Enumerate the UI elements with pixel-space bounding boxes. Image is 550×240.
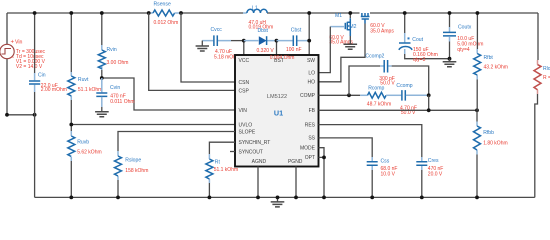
wire LO gate drive [319,27,331,73]
svg-text:Cin: Cin [38,73,46,79]
svg-text:Rvin: Rvin [107,47,117,53]
svg-text:U1: U1 [274,109,283,118]
svg-text:0.012 Ohm: 0.012 Ohm [154,20,179,26]
ground main [271,196,285,207]
voltage source Vin [0,13,46,115]
svg-text:−: − [11,55,15,61]
resistor Ruvt [68,72,103,100]
resistor Rvin [98,45,128,70]
wire Rvin column [100,11,104,78]
wire SYNCOUT stub [230,151,235,153]
svg-text:Cbst: Cbst [291,27,302,33]
transistor M2 low-side [329,11,356,45]
wire FB net [319,95,479,112]
svg-text:AGND: AGND [252,159,267,165]
svg-text:HO: HO [308,80,316,86]
svg-text:Rload: Rload [543,66,550,72]
node BST [275,39,279,55]
capacitor Coutx [443,11,483,61]
svg-text:Rcomp: Rcomp [368,86,384,92]
capacitor Ccomp [396,83,430,116]
svg-text:+: + [11,40,15,46]
ground under Cvin [95,107,109,117]
svg-text:V2 = 14.0 V: V2 = 14.0 V [16,64,43,70]
svg-text:SS: SS [308,136,315,142]
capacitor Ccomp2 [349,54,429,96]
svg-text:CSN: CSN [239,80,250,86]
svg-text:5.62 kOhm: 5.62 kOhm [77,149,101,155]
svg-text:51.1 kOhm: 51.1 kOhm [78,87,102,93]
wire HO gate drive [319,24,366,82]
resistor Rslope [115,151,149,199]
svg-text:COMP: COMP [300,93,316,99]
svg-text:100 nF: 100 nF [286,47,302,53]
svg-text:158 kOhm: 158 kOhm [125,168,148,174]
svg-text:Rfbt: Rfbt [484,55,494,61]
capacitor Cres [416,157,443,199]
resistor Rsense [147,1,183,25]
svg-text:Coutx: Coutx [458,24,472,30]
svg-text:0.011 Ohm: 0.011 Ohm [110,99,134,105]
svg-text:R = 2.9: R = 2.9 [543,75,550,81]
wire SLOPE to Rslope [118,132,235,152]
resistor Rfbt [474,11,508,110]
svg-text:3.00 Ohm: 3.00 Ohm [107,60,129,66]
wire MODE/OPT to ground [319,148,326,200]
svg-text:SYNCOUT: SYNCOUT [239,149,263,155]
resistor Rfbb [474,110,508,199]
svg-text:Rfbb: Rfbb [483,130,494,136]
svg-text:Rslope: Rslope [125,158,141,164]
wire CSN sense [181,13,235,82]
svg-text:CSP: CSP [239,88,250,94]
svg-text:Ccomp2: Ccomp2 [365,54,384,60]
capacitor Css [367,157,398,199]
svg-text:LO: LO [308,70,315,76]
wire PGND [294,167,298,200]
value label Cbst ESR [270,55,295,61]
wire top rail [7,12,538,14]
resistor Rload [534,13,550,197]
svg-text:Rsense: Rsense [154,1,171,7]
svg-text:Dbst: Dbst [258,28,269,34]
wire RES to Cres [319,125,422,157]
wire input column [33,11,37,197]
ground under M2 [344,36,358,49]
svg-text:SW: SW [307,58,315,64]
wire UVLO divider column [69,11,73,199]
capacitor Cout polarized [399,11,450,63]
svg-text:Cvcc: Cvcc [211,27,223,33]
svg-text:FB: FB [309,108,316,114]
svg-text:Ruvb: Ruvb [77,139,89,145]
wire bottom ground rail [35,196,535,198]
svg-text:35.0 Amps: 35.0 Amps [370,28,394,34]
svg-text:UVLO: UVLO [239,122,253,128]
svg-text:M1: M1 [335,13,342,19]
svg-text:VCC: VCC [239,58,250,64]
svg-text:0.320 V: 0.320 V [257,48,275,54]
svg-text:M2: M2 [349,24,356,30]
capacitor Cbst [277,27,310,53]
svg-text:Cout: Cout [412,37,423,43]
node UVLO junction [69,123,235,127]
resistor Ruvb [68,131,102,161]
capacitor Cvin [96,78,134,107]
svg-text:Ruvt: Ruvt [78,77,89,83]
inductor L1 [243,5,273,30]
ground at Cvcc [196,41,209,51]
svg-text:qty=3: qty=3 [413,57,426,63]
svg-text:51.1 kOhm: 51.1 kOhm [214,167,238,173]
svg-text:LM5122: LM5122 [267,94,287,100]
svg-text:VIN: VIN [239,108,248,114]
wire AGND [256,167,260,200]
svg-text:L1: L1 [252,5,258,11]
svg-text:OPT: OPT [305,155,315,161]
svg-text:SYNCHIN_RT: SYNCHIN_RT [239,140,271,146]
svg-text:qty=4: qty=4 [457,47,470,53]
svg-text:PGND: PGND [288,159,303,165]
svg-text:Css: Css [381,159,390,165]
transistor M1 high-side [361,13,395,34]
wire CSP sense [149,13,235,90]
svg-text:RES: RES [305,122,316,128]
svg-text:50.0 V: 50.0 V [401,110,416,116]
diode Dbst [244,28,277,54]
node COMP [319,93,361,97]
svg-text:Cres: Cres [428,158,439,164]
svg-text:1.80 kOhm: 1.80 kOhm [483,140,507,146]
resistor Rcomp [360,86,401,108]
svg-text:Rt: Rt [215,160,221,166]
wire Vin negative return [5,113,36,117]
resistor Rt [206,154,238,199]
ground at output caps [443,59,457,67]
svg-text:Vin: Vin [15,40,23,46]
node SW [307,11,311,55]
wire SS to Css [319,138,373,157]
svg-text:10.0 V: 10.0 V [381,172,396,178]
svg-text:43.2 kOhm: 43.2 kOhm [484,65,508,71]
svg-text:Cvin: Cvin [110,85,120,91]
node Rvin/Cvin/VIN junction [100,76,235,110]
capacitor Cin [29,73,67,94]
svg-text:SLOPE: SLOPE [239,129,256,135]
svg-text:0.004 Ohm: 0.004 Ohm [270,55,295,61]
wire SYNCHIN_RT to Rt [209,142,235,154]
IC U1 LM5122 [235,55,319,167]
svg-text:2.00 mOhm: 2.00 mOhm [41,87,67,93]
node VCC [242,39,246,55]
capacitor Cvcc [202,27,244,60]
svg-text:20.0 V: 20.0 V [428,172,443,178]
svg-text:MODE: MODE [300,146,316,152]
svg-text:48.7 kOhm: 48.7 kOhm [367,101,391,107]
svg-text:Ccomp: Ccomp [396,83,412,89]
